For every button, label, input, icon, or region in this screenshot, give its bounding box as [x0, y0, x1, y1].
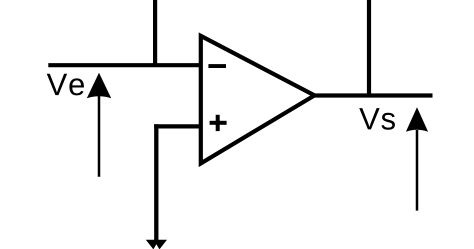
Vs arrow	[406, 107, 428, 210]
op-amp plus input symbol	[210, 115, 227, 131]
node Vs label	[359, 108, 395, 130]
wire: top-left vertical feedback wire	[153, 0, 157, 65]
op-amp minus input symbol	[208, 64, 226, 68]
Ve arrow	[87, 73, 111, 177]
ground (open arrowhead pointing down, clipped)	[146, 240, 167, 249]
wire: top-right vertical feedback wire	[367, 0, 371, 96]
wire: non-inverting input horizontal wire	[154, 124, 201, 128]
wire: vertical wire to ground	[154, 124, 158, 241]
op-amp U1 (triangle)	[201, 36, 315, 163]
node Ve label	[47, 74, 84, 96]
wire: inverting input horizontal wire	[48, 63, 201, 67]
wire: output wire	[314, 93, 433, 97]
